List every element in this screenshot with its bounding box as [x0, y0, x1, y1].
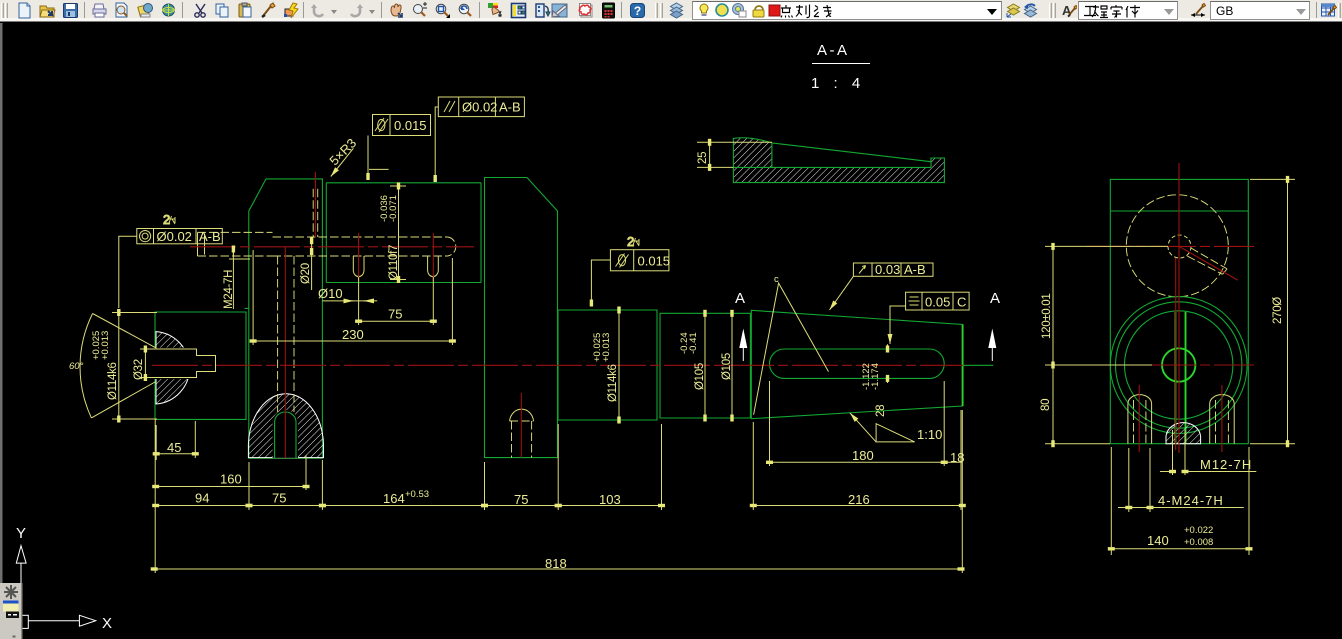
svg-text:75: 75: [272, 491, 286, 506]
dim 45: [156, 453, 195, 455]
2chu label mid: [627, 234, 640, 249]
centerline stub right: [963, 364, 994, 366]
svg-text:75: 75: [514, 492, 528, 507]
svg-text:180: 180: [852, 448, 874, 463]
svg-text:25: 25: [697, 152, 709, 164]
icon sheetset: [551, 2, 568, 19]
block2 hatched dome: [248, 394, 323, 458]
dim dia20 vertical: [311, 241, 313, 290]
keyway slot lines: [1176, 312, 1186, 444]
icon matchprop: [260, 2, 277, 19]
60 degree cone dim: [91, 314, 156, 418]
cone right edge bold: [962, 325, 964, 407]
svg-text:C: C: [957, 295, 966, 310]
svg-text:2: 2: [627, 234, 634, 249]
dim 180: [770, 461, 945, 463]
icon layers: [668, 2, 685, 19]
svg-text:Ø20: Ø20: [300, 263, 312, 284]
icon new: [16, 2, 33, 19]
dim 4-M24-7H: [1129, 448, 1150, 512]
tapered cone segment 1:10: [751, 310, 962, 418]
frame symmetry 0.05 C: [906, 292, 970, 310]
svg-text:M12-7H: M12-7H: [1200, 457, 1252, 472]
dim 164 +0.53: [322, 505, 484, 507]
icon redo: [347, 2, 364, 19]
icon markup: [577, 2, 594, 19]
svg-text:-1.174: -1.174: [870, 363, 881, 390]
dim 818 overall: [154, 568, 961, 570]
frame cylindricity 0.015 top: [373, 115, 431, 136]
dim dia114k6 left: [112, 313, 157, 420]
main axis: [152, 364, 963, 366]
svg-text:Ø114k6: Ø114k6: [607, 364, 619, 402]
svg-text:4-M24-7H: 4-M24-7H: [1158, 493, 1224, 508]
svg-text:164: 164: [383, 491, 405, 506]
big circles: [1110, 297, 1247, 434]
icon save: [62, 2, 79, 19]
block2 vertical hole dia20: [278, 256, 294, 412]
keyway slot on cone: [770, 349, 945, 378]
hex nut dashed circle: [1168, 235, 1191, 258]
block4 stud axis: [520, 393, 522, 458]
dim dia110f7: [390, 186, 406, 280]
cross tube dia20: [273, 237, 448, 256]
shaft segment A (left, dia114): [155, 308, 249, 419]
svg-text:Ø114k6: Ø114k6: [107, 362, 119, 400]
frame cylindricity 0.015 mid: [610, 250, 669, 271]
svg-text:120±0.01: 120±0.01: [1041, 294, 1053, 339]
icon zoomprev: [457, 2, 474, 19]
dim 270 right: [1250, 179, 1295, 443]
ext lines verticals: [155, 381, 962, 573]
dim 103: [558, 505, 661, 507]
hole centers: [359, 233, 434, 281]
dim 140 +0.022+0.008: [1111, 447, 1249, 555]
bottom-left palette fragment: [0, 583, 22, 639]
icon zoomwin: [434, 2, 451, 19]
dim dia114k6 seg5: [618, 310, 620, 420]
svg-text:0.015: 0.015: [638, 254, 671, 269]
textstyle combo: [1078, 1, 1178, 20]
svg-text:A-B: A-B: [904, 262, 926, 277]
svg-text:A: A: [735, 290, 745, 307]
svg-text:+0.013: +0.013: [100, 331, 111, 360]
svg-text:Ø105: Ø105: [721, 353, 733, 380]
lever axis red: [1180, 247, 1238, 280]
svg-text:A-B: A-B: [199, 229, 221, 244]
5xR3 leader: [326, 135, 359, 168]
svg-text:160: 160: [220, 472, 242, 487]
icon layerstates: [1005, 2, 1022, 19]
section A-A profile: [733, 138, 772, 168]
svg-text:818: 818: [545, 556, 567, 571]
oil hole axis: [314, 172, 316, 237]
svg-text:?: ?: [634, 4, 641, 18]
icon blockedit: [283, 2, 300, 19]
svg-text:Ø0.02: Ø0.02: [157, 229, 192, 244]
icon palettes: [534, 2, 551, 19]
red crosshairs end view: [1086, 246, 1254, 365]
svg-text:+0.008: +0.008: [1184, 537, 1213, 548]
dim dia32: [140, 349, 156, 378]
left docked edge strip: [0, 23, 3, 639]
svg-text:Ø32: Ø32: [133, 359, 145, 380]
icon undo: [310, 2, 327, 19]
svg-text:Ø0.02: Ø0.02: [462, 100, 497, 115]
chord line: [1110, 210, 1248, 212]
shaft block 3 (center, bore cavity): [326, 183, 481, 283]
svg-text:+0.53: +0.53: [405, 489, 429, 500]
svg-text:75: 75: [388, 307, 402, 322]
layer combo: [692, 1, 1002, 20]
svg-text:-0.071: -0.071: [388, 195, 399, 222]
dim dia105 plain: [731, 313, 733, 418]
dim 25: [697, 142, 772, 167]
shaft segment 6 (dia105): [660, 313, 750, 418]
icon designcenter: [510, 2, 527, 19]
svg-text:230: 230: [342, 327, 364, 342]
icon help: [629, 2, 646, 19]
svg-text:1:10: 1:10: [917, 427, 942, 442]
block2 slot axis: [284, 247, 286, 458]
icon open: [39, 2, 56, 19]
segA hatched half-disc: [156, 332, 190, 404]
frame circular runout 0.03 A-B: [853, 263, 933, 276]
end view body rect: [1110, 179, 1248, 443]
svg-text:216: 216: [848, 492, 870, 507]
svg-text:A-A: A-A: [817, 42, 850, 59]
M24 threaded hole boss left: [198, 232, 273, 256]
taper 1:10 symbol: [876, 424, 915, 442]
block2 bottom keyseat slot: [275, 412, 296, 458]
dim 18: [944, 461, 962, 463]
dim M12-7H: [1173, 430, 1186, 475]
svg-text:270Ø: 270Ø: [1272, 297, 1284, 324]
keyway 28 dim: [887, 344, 889, 349]
icon etransmit: [160, 2, 177, 19]
dim dia10 leader: [322, 300, 377, 302]
icon pan: [388, 2, 405, 19]
dim 94: [156, 505, 249, 507]
svg-text:Ø110f7: Ø110f7: [388, 245, 400, 280]
block4 stud hole: [510, 409, 534, 421]
icon preview: [113, 2, 130, 19]
svg-text:Y: Y: [16, 525, 26, 542]
dim 216: [753, 505, 962, 507]
center bore circle bold: [1162, 348, 1195, 381]
icon properties: [487, 2, 504, 19]
svg-text:+0.022: +0.022: [1184, 525, 1213, 536]
dim 230: [253, 250, 452, 345]
svg-text:0.015: 0.015: [394, 118, 427, 133]
svg-text:94: 94: [195, 491, 209, 506]
svg-text:A: A: [990, 290, 1000, 307]
shaft block 4 (right wheel, chamfered): [485, 178, 558, 459]
segA center hole outline (yellow): [156, 349, 216, 378]
svg-text:0.05: 0.05: [925, 295, 950, 310]
hatched M12 stub: [1166, 423, 1201, 444]
icon copy: [214, 2, 231, 19]
svg-text:80: 80: [1040, 399, 1052, 411]
svg-text:0.03: 0.03: [875, 262, 900, 277]
dim 120 +-0.01 and 80 left: [1045, 246, 1168, 443]
small dia10 holes under tube: [353, 256, 364, 277]
svg-text:A-B: A-B: [499, 100, 521, 115]
dim 160: [156, 486, 306, 488]
svg-text:45: 45: [167, 440, 181, 455]
svg-text:18: 18: [950, 450, 964, 465]
M24 studs bottom: [1128, 395, 1152, 444]
svg-text:2: 2: [163, 212, 170, 227]
frame parallel dia0.02 A-B: [438, 97, 524, 117]
dim 75 holes: [359, 277, 434, 325]
top circle (hidden, dashed): [1126, 195, 1228, 297]
svg-text:103: 103: [599, 492, 621, 507]
shaft segment 5 (dia114k6): [558, 310, 657, 420]
svg-text:c: c: [774, 274, 779, 285]
dim dia105 tol: [704, 313, 706, 418]
svg-text:1 : 4: 1 : 4: [811, 75, 865, 92]
shaft block 2 (left wheel, chamfered): [249, 179, 323, 458]
icon paste: [237, 2, 254, 19]
icon calc: [600, 2, 617, 19]
dimstyle combo: [1210, 1, 1310, 20]
svg-text:Ø10: Ø10: [318, 286, 343, 301]
icon publish: [137, 2, 154, 19]
icon dimstyle: [1190, 2, 1207, 19]
svg-text:140: 140: [1147, 533, 1169, 548]
2chu label left: [163, 212, 176, 227]
svg-text:60°: 60°: [69, 361, 84, 372]
dim 75 left: [249, 505, 322, 507]
tube axis: [190, 246, 474, 248]
icon print: [91, 2, 108, 19]
svg-text:+0.013: +0.013: [601, 333, 612, 362]
dim 75 mid: [485, 505, 559, 507]
icon table: [1320, 2, 1337, 19]
icon cut: [192, 2, 209, 19]
svg-text:Ø105: Ø105: [694, 363, 706, 390]
icon zoomrt: [411, 2, 428, 19]
svg-text:X: X: [102, 615, 112, 632]
svg-text:-0.41: -0.41: [688, 332, 699, 354]
icon textstyle: [1060, 2, 1077, 19]
svg-text:28: 28: [875, 405, 887, 417]
icon layerprev: [1022, 2, 1039, 19]
frame concentric dia0.02 A-B left: [137, 229, 223, 244]
conical surface leader c: [754, 283, 829, 415]
lever rod dashed: [1187, 248, 1227, 274]
oil hole top: [313, 189, 318, 237]
